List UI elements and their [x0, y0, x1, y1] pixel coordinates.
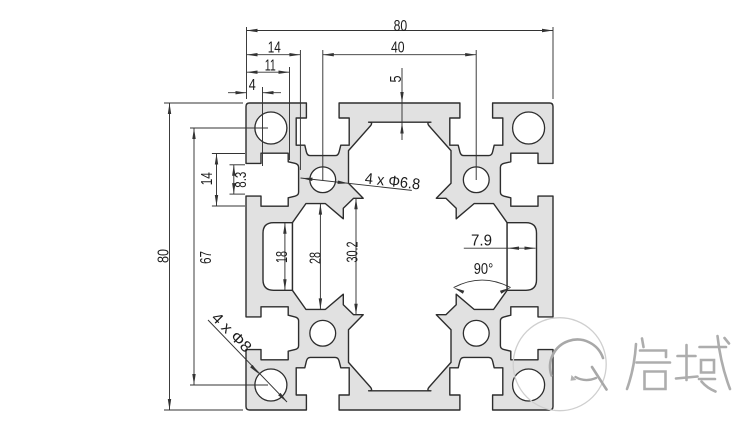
svg-text:7.9: 7.9 — [471, 233, 492, 250]
svg-text:40: 40 — [391, 40, 405, 57]
svg-text:28: 28 — [308, 252, 325, 264]
svg-text:8.3: 8.3 — [233, 172, 250, 188]
svg-text:18: 18 — [274, 251, 291, 263]
svg-text:11: 11 — [265, 57, 276, 74]
svg-text:90°: 90° — [474, 261, 494, 278]
svg-text:5: 5 — [388, 76, 405, 83]
svg-text:80: 80 — [394, 18, 408, 35]
svg-text:80: 80 — [156, 249, 173, 263]
svg-text:14: 14 — [199, 172, 216, 185]
svg-text:4: 4 — [249, 77, 256, 94]
svg-text:14: 14 — [268, 40, 281, 57]
svg-text:30.2: 30.2 — [345, 242, 362, 263]
svg-text:67: 67 — [198, 251, 215, 264]
